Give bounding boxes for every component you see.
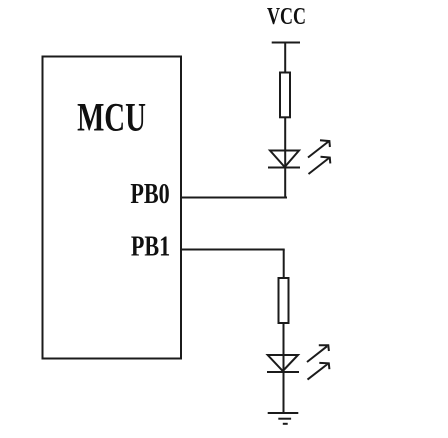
wire R2 to LED D2 and down to ground <box>283 323 285 413</box>
LED D1 anode triangle <box>270 151 299 168</box>
wire PB0 net <box>181 197 287 199</box>
LED D1 cathode bar <box>268 167 300 169</box>
wire VCC to R1 <box>284 43 286 74</box>
MCU block U1 <box>43 57 182 359</box>
LED D1 light arrow 2 <box>309 157 331 174</box>
wire PB1 node down to R2 <box>283 250 285 279</box>
resistor R1 <box>280 73 290 118</box>
LED D2 anode triangle <box>268 355 298 371</box>
wire R1 to LED D1 and down to PB0 node <box>284 117 286 197</box>
resistor R2 <box>279 278 289 323</box>
LED D1 light arrow 1 <box>308 140 330 157</box>
ground symbol <box>268 413 299 424</box>
svg-text:MCU: MCU <box>77 95 146 140</box>
svg-text:PB1: PB1 <box>131 232 170 262</box>
LED D2 light arrow 2 <box>308 363 330 380</box>
LED D2 light arrow 1 <box>307 345 329 362</box>
LED D2 cathode bar <box>267 371 299 373</box>
svg-text:PB0: PB0 <box>130 180 169 210</box>
svg-text:VCC: VCC <box>267 3 306 30</box>
wire PB1 net <box>181 249 285 251</box>
VCC power rail symbol <box>272 42 300 44</box>
